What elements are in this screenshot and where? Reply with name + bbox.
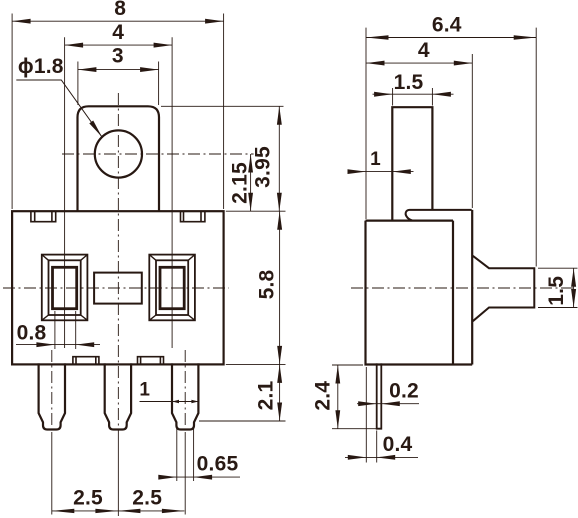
dim 6.4 extension lines xyxy=(365,28,367,219)
front right contact window xyxy=(149,255,195,321)
side top step xyxy=(406,210,472,221)
front bottom-left notch xyxy=(73,357,99,365)
svg-text:4: 4 xyxy=(418,39,430,62)
dim 2.4 extension lines xyxy=(332,364,363,366)
dim 2.4 line xyxy=(337,365,339,429)
front bottom-right notch xyxy=(138,357,164,365)
front view body outline xyxy=(12,211,224,364)
dim 0.8 extension lines xyxy=(54,311,56,349)
body top extension line xyxy=(226,210,286,212)
svg-text:5.8: 5.8 xyxy=(256,269,279,299)
dim 4 line xyxy=(65,44,173,46)
svg-text:6.4: 6.4 xyxy=(432,14,462,37)
hole horizontal centerline xyxy=(62,153,254,155)
svg-text:4: 4 xyxy=(112,21,124,44)
tab top extension line xyxy=(161,105,284,107)
svg-text:2.5: 2.5 xyxy=(73,487,103,510)
dim 1.5 top extension lines xyxy=(392,88,394,106)
svg-text:8: 8 xyxy=(114,0,126,20)
svg-text:2.5: 2.5 xyxy=(132,487,162,510)
side body outline xyxy=(366,210,473,365)
body bottom extension line xyxy=(226,363,286,365)
dim 0.65 extension lines xyxy=(176,426,178,481)
dim 2.1 line xyxy=(279,364,281,421)
side leg xyxy=(377,363,382,428)
dim 1 front line xyxy=(140,401,199,403)
svg-text:1: 1 xyxy=(139,379,150,400)
dim 1.5 right extension lines xyxy=(538,267,578,269)
dim 2.5 line xyxy=(52,510,185,512)
dim 0.8 line xyxy=(16,344,100,346)
front vertical centerline xyxy=(117,93,119,432)
side plunger xyxy=(392,107,432,220)
dim 0.65 line xyxy=(161,476,241,478)
svg-text:1.5: 1.5 xyxy=(545,276,568,306)
dim 1.5 right line xyxy=(573,268,575,307)
front tab hole d1.8 xyxy=(95,130,142,177)
front middle leg xyxy=(105,363,131,429)
dim 6.4 line xyxy=(366,37,536,39)
dim 1 side line xyxy=(348,171,414,173)
dim 0.4 extension lines xyxy=(365,367,367,463)
front top-right notch xyxy=(181,211,205,222)
dim 5.8 line xyxy=(279,211,281,364)
dim 0.2 line xyxy=(357,403,419,405)
dim 1.5 top line xyxy=(373,93,454,95)
front top-left notch xyxy=(31,211,56,222)
dim 8 line xyxy=(12,20,224,22)
svg-text:0.2: 0.2 xyxy=(389,379,419,402)
svg-text:0.4: 0.4 xyxy=(383,433,413,456)
front center recess xyxy=(94,273,142,304)
svg-text:0.8: 0.8 xyxy=(17,322,47,345)
dim 4 extension lines xyxy=(64,37,66,348)
left leg centerline xyxy=(51,350,53,432)
svg-text:1: 1 xyxy=(370,149,381,170)
dim 4 side line xyxy=(366,62,472,64)
leader line phi1.8 xyxy=(16,80,102,137)
svg-text:3.95: 3.95 xyxy=(252,146,275,188)
svg-text:ϕ1.8: ϕ1.8 xyxy=(18,55,64,78)
dim 0.4 line xyxy=(345,456,418,458)
svg-text:2.15: 2.15 xyxy=(228,162,251,204)
svg-text:3: 3 xyxy=(112,45,124,68)
dim 4 side extension line xyxy=(471,54,473,208)
dim 8 extension lines xyxy=(11,14,13,210)
svg-text:0.65: 0.65 xyxy=(197,452,239,475)
front right leg xyxy=(172,363,198,429)
dim 2.15 line xyxy=(250,154,252,211)
right leg centerline xyxy=(184,350,186,432)
svg-text:2.4: 2.4 xyxy=(312,381,335,411)
leg shoulder extension line xyxy=(199,420,286,422)
side horizontal centerline xyxy=(351,287,575,289)
front left contact window xyxy=(42,255,88,321)
dim 3 line xyxy=(78,69,159,71)
svg-text:2.1: 2.1 xyxy=(254,380,277,410)
front horizontal centerline xyxy=(3,287,229,289)
dim 3.95 line xyxy=(278,106,280,211)
svg-text:1.5: 1.5 xyxy=(394,71,424,94)
side actuator nose xyxy=(473,256,535,321)
dim 3 extension lines xyxy=(77,62,79,106)
front mounting tab xyxy=(78,106,160,211)
front left leg xyxy=(39,363,65,429)
